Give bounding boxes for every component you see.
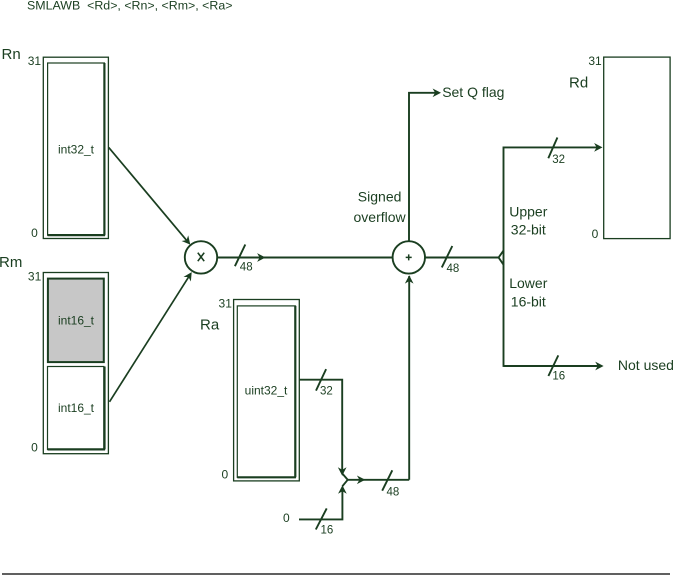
wire Ra down to merge xyxy=(300,380,343,473)
slash 32 (to Rd) xyxy=(548,138,557,159)
svg-text:Lower: Lower xyxy=(509,275,547,291)
register Ra inner box xyxy=(237,306,295,477)
svg-text:SMLAWB <Rd>, <Rn>, <Rm>, <Ra>: SMLAWB <Rd>, <Rn>, <Rm>, <Ra> xyxy=(27,0,232,12)
svg-text:48: 48 xyxy=(240,262,253,274)
wire lower 16-bit to Not used xyxy=(504,365,601,367)
wire upper 32-bit to Rd xyxy=(504,146,601,148)
slash 16 (not used) xyxy=(548,355,558,376)
svg-text:int32_t: int32_t xyxy=(58,143,95,157)
adder circle + xyxy=(393,241,425,273)
svg-text:0: 0 xyxy=(31,226,38,240)
register Ra outer box xyxy=(234,300,300,481)
svg-text:int16_t: int16_t xyxy=(58,314,95,328)
svg-text:Rm: Rm xyxy=(0,254,22,271)
arrow mid-wire xyxy=(257,253,265,262)
register Rn inner box xyxy=(48,63,105,235)
wire Rn to multiplier xyxy=(109,147,188,241)
register Rn outer box xyxy=(43,57,108,238)
merge junction xyxy=(342,474,347,487)
svg-text:Rd: Rd xyxy=(569,74,588,91)
svg-text:uint32_t: uint32_t xyxy=(245,384,288,398)
wire accumulate input (vertical into adder) xyxy=(408,276,410,480)
svg-text:0: 0 xyxy=(283,511,290,525)
svg-text:16: 16 xyxy=(321,524,334,536)
wire multiplier to adder xyxy=(217,257,393,259)
svg-text:Ra: Ra xyxy=(200,316,220,333)
svg-text:Upper: Upper xyxy=(509,203,547,219)
wire adder to result fork xyxy=(425,257,499,259)
svg-text:48: 48 xyxy=(387,486,400,498)
svg-text:Signed: Signed xyxy=(358,189,402,205)
fork split xyxy=(499,250,504,265)
wire merge to adder riser xyxy=(348,479,410,481)
svg-text:overflow: overflow xyxy=(354,209,407,225)
page footer rule xyxy=(2,573,670,575)
svg-text:32: 32 xyxy=(320,385,333,397)
svg-text:31: 31 xyxy=(219,297,233,311)
svg-text:48: 48 xyxy=(447,263,460,275)
slash 48 (product) xyxy=(235,245,245,267)
wire Rm to multiplier xyxy=(110,276,190,402)
slash 48 (sum) xyxy=(442,246,453,267)
svg-text:int16_t: int16_t xyxy=(58,401,95,415)
svg-text:31: 31 xyxy=(28,269,42,283)
register Rm bottom half int16_t xyxy=(48,367,104,450)
svg-text:32-bit: 32-bit xyxy=(511,221,546,237)
svg-text:0: 0 xyxy=(592,227,599,241)
wire fork vertical xyxy=(503,147,505,367)
svg-text:Not used: Not used xyxy=(618,357,673,373)
svg-text:16-bit: 16-bit xyxy=(511,293,546,309)
svg-text:Set Q flag: Set Q flag xyxy=(442,84,504,100)
svg-text:16: 16 xyxy=(552,371,565,383)
register Rm top half int16_t (shaded) xyxy=(48,279,104,363)
slash 16 (zero input) xyxy=(316,508,327,529)
multiplier circle X xyxy=(185,241,217,273)
svg-text:0: 0 xyxy=(31,440,38,454)
wire zero input xyxy=(299,488,342,519)
wire adder to Set Q flag xyxy=(409,93,438,242)
slash 32 (Ra) xyxy=(316,369,326,391)
arrow on merge output xyxy=(357,475,365,484)
svg-text:32: 32 xyxy=(552,154,565,166)
register Rd box xyxy=(604,57,670,239)
svg-text:Rn: Rn xyxy=(2,46,21,63)
register Rm outer box xyxy=(43,273,108,454)
slash 48 (merge) xyxy=(382,470,392,490)
svg-text:0: 0 xyxy=(221,468,228,482)
svg-text:31: 31 xyxy=(588,54,602,68)
svg-text:31: 31 xyxy=(28,54,42,68)
